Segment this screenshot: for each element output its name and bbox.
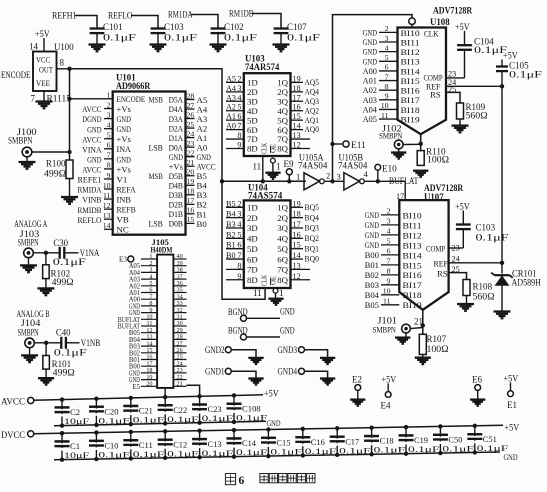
wire xyxy=(57,68,70,70)
svg-text:A0: A0 xyxy=(197,143,208,153)
capacitor C101 xyxy=(90,27,105,29)
J105 pin 9 xyxy=(141,312,157,314)
svg-text:E4: E4 xyxy=(381,401,391,411)
svg-text:0.1μF: 0.1μF xyxy=(54,347,87,357)
svg-text:15: 15 xyxy=(293,241,301,250)
svg-text:BI12: BI12 xyxy=(401,47,420,57)
U103 pin 3 xyxy=(226,91,244,93)
U101 pin 11 xyxy=(104,198,113,200)
capacitor C102 xyxy=(211,27,226,29)
resistor R102 xyxy=(43,265,50,279)
J105 pin 3 xyxy=(141,271,157,273)
svg-text:+5V: +5V xyxy=(382,375,397,385)
svg-text:3Q: 3Q xyxy=(277,223,288,233)
svg-text:GND4: GND4 xyxy=(278,367,298,377)
capacitor C18 xyxy=(371,428,373,455)
svg-text:D1B: D1B xyxy=(169,209,184,219)
svg-text:CLK: CLK xyxy=(262,143,269,154)
U104 pin 3 xyxy=(226,217,244,219)
svg-text:14: 14 xyxy=(29,42,39,52)
svg-text:REFLO: REFLO xyxy=(108,11,133,21)
junction xyxy=(44,251,48,255)
junction xyxy=(330,179,334,183)
svg-text:B02: B02 xyxy=(365,270,379,280)
svg-text:6: 6 xyxy=(237,112,241,121)
U101 pin 26 xyxy=(186,118,195,120)
ground xyxy=(37,287,54,289)
svg-text:2: 2 xyxy=(385,24,389,33)
svg-text:0.1μF: 0.1μF xyxy=(476,233,509,243)
svg-text:4: 4 xyxy=(387,227,391,236)
svg-text:10: 10 xyxy=(103,181,111,190)
svg-text:BQ0: BQ0 xyxy=(305,254,320,264)
svg-text:6: 6 xyxy=(107,141,111,150)
junction xyxy=(419,142,423,146)
svg-text:GND2: GND2 xyxy=(205,345,225,355)
svg-text:8: 8 xyxy=(237,261,241,270)
svg-text:R108: R108 xyxy=(473,282,493,292)
svg-text:+Vs: +Vs xyxy=(169,161,184,171)
J105 pin 11 xyxy=(141,325,157,327)
ground xyxy=(320,377,335,379)
svg-text:REFA: REFA xyxy=(117,184,137,194)
svg-text:E10: E10 xyxy=(382,164,397,174)
svg-text:15: 15 xyxy=(293,112,301,121)
U104 pin 6 xyxy=(226,248,244,250)
svg-text:BI19: BI19 xyxy=(403,300,423,310)
U103 pin 14 xyxy=(291,129,304,131)
J105 pin 13 xyxy=(141,338,157,340)
svg-text:DGND: DGND xyxy=(82,114,101,124)
resistor R107 xyxy=(419,334,426,354)
svg-text:BI10: BI10 xyxy=(401,28,421,38)
junction xyxy=(261,179,265,183)
resistor R110 xyxy=(417,151,424,166)
svg-text:0.1μF: 0.1μF xyxy=(164,33,197,43)
capacitor C19 xyxy=(405,427,407,454)
svg-text:VB: VB xyxy=(117,215,129,225)
svg-text:+5V: +5V xyxy=(504,374,519,384)
svg-text:U108: U108 xyxy=(430,17,450,27)
wire xyxy=(45,343,47,356)
ground xyxy=(405,333,407,337)
svg-text:GND: GND xyxy=(363,47,377,57)
svg-text:5: 5 xyxy=(237,230,241,239)
svg-text:C102: C102 xyxy=(224,22,244,32)
U104 pin 13 xyxy=(291,268,311,270)
svg-text:E6: E6 xyxy=(472,375,482,385)
U101 pin 22 xyxy=(186,156,195,158)
svg-text:8: 8 xyxy=(60,58,65,68)
svg-text:560Ω: 560Ω xyxy=(466,111,488,121)
junction xyxy=(500,261,504,265)
svg-text:74AR574: 74AR574 xyxy=(245,62,280,72)
svg-text:D1A: D1A xyxy=(169,133,184,143)
svg-text:0.1μF: 0.1μF xyxy=(167,414,199,424)
svg-text:B3: B3 xyxy=(226,220,236,229)
svg-text:19: 19 xyxy=(293,74,301,83)
svg-text:GND: GND xyxy=(363,27,377,37)
test point E11 xyxy=(333,143,343,145)
ground xyxy=(89,43,106,45)
capacitor C50 xyxy=(439,426,441,453)
svg-text:74AS574: 74AS574 xyxy=(248,191,283,201)
capacitor C103 xyxy=(151,27,166,29)
svg-text:16: 16 xyxy=(293,103,301,112)
U103 pin 5 xyxy=(226,110,244,112)
U101 pin 3 xyxy=(104,118,113,120)
junction xyxy=(44,341,48,345)
svg-text:28: 28 xyxy=(187,91,195,100)
svg-text:BI13: BI13 xyxy=(401,57,421,67)
svg-text:1Q: 1Q xyxy=(277,203,288,213)
svg-text:E11: E11 xyxy=(351,140,366,150)
ground xyxy=(248,377,263,379)
J105 pin 12 xyxy=(141,332,157,334)
svg-text:GND: GND xyxy=(117,154,131,164)
svg-text:B04: B04 xyxy=(365,290,380,300)
svg-text:3: 3 xyxy=(237,84,241,93)
svg-text:1: 1 xyxy=(107,90,111,99)
ground xyxy=(320,357,335,359)
capacitor C12 xyxy=(164,431,166,458)
wire U108 output xyxy=(420,134,422,166)
svg-text:SMBPN: SMBPN xyxy=(18,238,39,248)
svg-text:+5V: +5V xyxy=(35,29,50,39)
svg-text:B1: B1 xyxy=(226,241,236,250)
svg-text:0.1μF: 0.1μF xyxy=(202,448,234,458)
svg-text:16: 16 xyxy=(187,206,195,215)
J105 pin 37 xyxy=(173,278,186,280)
svg-text:18: 18 xyxy=(293,210,301,219)
U107 pin 3 xyxy=(381,224,399,226)
svg-text:R100: R100 xyxy=(46,159,66,169)
ground xyxy=(350,398,365,400)
svg-text:GND: GND xyxy=(363,37,377,47)
ground xyxy=(415,357,431,359)
J105 pin 2 xyxy=(141,265,157,267)
svg-text:5: 5 xyxy=(237,103,241,112)
svg-text:AVCC: AVCC xyxy=(82,165,101,175)
J105 pin 34 xyxy=(173,298,186,300)
svg-text:1: 1 xyxy=(279,288,284,298)
svg-text:GND: GND xyxy=(504,452,518,462)
svg-text:ANALOG A: ANALOG A xyxy=(14,219,47,229)
svg-text:B2: B2 xyxy=(226,230,236,239)
svg-text:RM1DB: RM1DB xyxy=(229,9,254,19)
svg-text:100Ω: 100Ω xyxy=(427,344,449,354)
svg-text:0.1μF: 0.1μF xyxy=(202,413,234,423)
J105 pin 25 xyxy=(173,359,186,361)
svg-text:GND: GND xyxy=(87,124,101,134)
svg-text:2: 2 xyxy=(107,100,111,109)
J105 pin 17 xyxy=(141,365,157,367)
svg-text:2: 2 xyxy=(387,207,391,216)
svg-text:21: 21 xyxy=(177,381,183,388)
svg-text:BI19: BI19 xyxy=(401,114,421,124)
svg-text:4: 4 xyxy=(237,220,241,229)
svg-text:AQ0: AQ0 xyxy=(305,124,320,134)
svg-text:560Ω: 560Ω xyxy=(473,292,495,302)
svg-text:0.1μF: 0.1μF xyxy=(305,446,337,456)
junction xyxy=(287,179,291,183)
svg-text:E9: E9 xyxy=(284,159,294,169)
svg-text:SMBPN: SMBPN xyxy=(379,131,403,141)
U103 pin 12 xyxy=(291,147,311,149)
svg-text:A05: A05 xyxy=(363,114,378,124)
svg-text:BQ1: BQ1 xyxy=(305,243,319,253)
svg-text:A00: A00 xyxy=(363,66,378,76)
J105 pin 36 xyxy=(173,285,186,287)
svg-text:V1: V1 xyxy=(117,174,128,184)
svg-text:BI16: BI16 xyxy=(401,86,421,96)
capacitor C107 xyxy=(274,27,289,29)
U101 pin 2 xyxy=(104,108,113,110)
U107 pin 6 xyxy=(381,254,399,256)
wire xyxy=(43,91,45,101)
svg-text:10: 10 xyxy=(381,101,389,110)
svg-text:A02: A02 xyxy=(363,85,377,95)
svg-text:E5: E5 xyxy=(132,384,140,391)
capacitor C20 xyxy=(95,399,97,425)
svg-text:J104: J104 xyxy=(21,318,41,328)
svg-text:B4: B4 xyxy=(197,181,208,191)
svg-text:A03: A03 xyxy=(363,95,378,105)
U103 pin 9 xyxy=(226,147,244,149)
U108 pin 10 xyxy=(379,108,398,110)
U104 pin 19 xyxy=(291,206,304,208)
capacitor C10 xyxy=(95,433,97,459)
svg-text:0.1μF: 0.1μF xyxy=(374,445,406,455)
svg-text:BI18: BI18 xyxy=(401,105,421,115)
wire encode to U101 pin1 xyxy=(70,98,113,100)
svg-text:8: 8 xyxy=(237,131,241,140)
svg-text:18: 18 xyxy=(293,84,301,93)
svg-text:+5V: +5V xyxy=(455,202,470,212)
svg-text:RMIDA: RMIDA xyxy=(78,185,103,195)
svg-text:0.1μF: 0.1μF xyxy=(98,415,130,425)
svg-text:B4: B4 xyxy=(226,210,236,219)
svg-text:1: 1 xyxy=(296,172,300,182)
svg-text:2: 2 xyxy=(237,74,241,83)
wire buflat xyxy=(364,180,405,182)
svg-text:0.1μF: 0.1μF xyxy=(236,447,268,457)
svg-text:4D: 4D xyxy=(247,234,258,244)
wire clock to U108 xyxy=(333,15,413,182)
wire xyxy=(324,180,344,182)
svg-text:18: 18 xyxy=(187,187,195,196)
svg-text:4: 4 xyxy=(107,120,111,129)
ground xyxy=(28,258,30,265)
J105 pin 23 xyxy=(173,372,186,374)
capacitor C23 xyxy=(199,396,201,422)
svg-text:BQ5: BQ5 xyxy=(305,202,320,212)
J105 pin 31 xyxy=(173,318,186,320)
svg-text:AVCC: AVCC xyxy=(1,397,25,407)
svg-text:D2B: D2B xyxy=(169,200,184,210)
capacitor C14 xyxy=(233,430,235,457)
svg-text:GND3: GND3 xyxy=(278,345,298,355)
junction xyxy=(376,179,380,183)
J105 pin 22 xyxy=(173,379,186,381)
U101 pin 8 xyxy=(104,168,113,170)
svg-text:11: 11 xyxy=(253,288,262,298)
capacitor C1 xyxy=(61,433,63,459)
svg-text:11: 11 xyxy=(103,191,111,200)
svg-text:20: 20 xyxy=(187,168,195,177)
svg-text:+5V: +5V xyxy=(264,389,279,399)
J105 pin 14 xyxy=(141,345,157,347)
svg-text:NC: NC xyxy=(117,225,129,235)
svg-text:VINB: VINB xyxy=(82,195,101,205)
svg-text:9: 9 xyxy=(385,92,389,101)
U107 pin 8 xyxy=(381,274,399,276)
svg-text:RS: RS xyxy=(437,269,448,279)
svg-text:0.1μF: 0.1μF xyxy=(408,444,440,454)
svg-text:0.1μF: 0.1μF xyxy=(98,450,130,460)
svg-text:E2: E2 xyxy=(352,375,362,385)
ground xyxy=(273,43,290,45)
svg-text:A1: A1 xyxy=(226,112,236,121)
U101 pin 24 xyxy=(186,137,195,139)
U104 pin 16 xyxy=(291,237,304,239)
U101 pin 16 xyxy=(186,213,195,215)
svg-text:C103: C103 xyxy=(164,22,184,32)
svg-text:REFLO: REFLO xyxy=(78,215,102,225)
svg-text:0.1μF: 0.1μF xyxy=(53,257,86,267)
ground xyxy=(268,298,283,300)
svg-text:AD589H: AD589H xyxy=(512,278,542,288)
svg-text:14: 14 xyxy=(293,122,301,131)
svg-text:C101: C101 xyxy=(103,22,123,32)
J105 pin 26 xyxy=(173,352,186,354)
U107 pin 10 xyxy=(381,294,399,296)
svg-text:OE: OE xyxy=(271,276,278,285)
svg-text:9: 9 xyxy=(107,171,111,180)
svg-text:E1: E1 xyxy=(507,400,517,410)
svg-text:6: 6 xyxy=(387,247,391,256)
svg-text:12: 12 xyxy=(293,140,301,149)
svg-text:5Q: 5Q xyxy=(277,244,288,254)
svg-text:7: 7 xyxy=(387,257,391,266)
U104 pin 14 xyxy=(291,258,304,260)
svg-text:AVCC: AVCC xyxy=(197,162,216,172)
svg-text:20: 20 xyxy=(146,381,152,388)
svg-text:A1: A1 xyxy=(197,133,208,143)
resistor R101 xyxy=(43,356,50,370)
J105 pin 10 xyxy=(141,318,157,320)
svg-text:+5V: +5V xyxy=(503,51,518,61)
svg-text:LSB: LSB xyxy=(149,142,164,152)
svg-text:B1: B1 xyxy=(197,209,207,219)
J105 pin 15 xyxy=(141,352,157,354)
U107 pin 11 xyxy=(381,304,399,306)
ground xyxy=(494,310,511,312)
U108 pin 3 xyxy=(379,41,398,43)
svg-text:4: 4 xyxy=(237,93,241,102)
svg-text:17: 17 xyxy=(187,196,195,205)
U101 pin 25 xyxy=(186,127,195,129)
svg-text:10: 10 xyxy=(383,287,391,296)
svg-text:C40: C40 xyxy=(56,328,71,338)
svg-text:BI14: BI14 xyxy=(401,66,421,76)
svg-text:ENCODE: ENCODE xyxy=(117,94,146,104)
svg-text:B03: B03 xyxy=(365,280,380,290)
svg-text:7D: 7D xyxy=(247,265,258,275)
svg-text:19: 19 xyxy=(293,199,301,208)
svg-text:A3: A3 xyxy=(197,114,208,124)
U101 pin 19 xyxy=(186,184,195,186)
U101 pin 7 xyxy=(104,158,113,160)
svg-text:VEE: VEE xyxy=(36,78,50,88)
U104 pin 8 xyxy=(226,268,244,270)
svg-text:5: 5 xyxy=(385,53,389,62)
wire xyxy=(69,179,71,197)
U107 pin 9 xyxy=(381,284,399,286)
svg-text:21: 21 xyxy=(187,158,195,167)
svg-text:12: 12 xyxy=(103,201,111,210)
svg-text:0.1μF: 0.1μF xyxy=(103,33,136,43)
U101 pin 18 xyxy=(186,194,195,196)
svg-text:6D: 6D xyxy=(247,254,258,264)
svg-text:GND: GND xyxy=(87,154,101,164)
svg-text:D0B: D0B xyxy=(169,219,184,229)
U104 pin 15 xyxy=(291,248,304,250)
U101 pin 17 xyxy=(186,203,195,205)
svg-text:9: 9 xyxy=(237,140,241,149)
J105 pin 1 xyxy=(141,258,157,260)
svg-text:+5V: +5V xyxy=(455,22,470,32)
capacitor C21 xyxy=(130,398,132,424)
J105 pin 8 xyxy=(141,305,157,307)
svg-text:GND: GND xyxy=(365,220,379,230)
svg-text:11: 11 xyxy=(253,162,262,172)
U101 pin 5 xyxy=(104,138,113,140)
wire encode to U104 clock xyxy=(222,181,265,299)
U107 pin 2 xyxy=(381,214,399,216)
svg-text:10μF: 10μF xyxy=(64,416,90,426)
svg-text:GND: GND xyxy=(117,124,131,134)
svg-text:0.1μF: 0.1μF xyxy=(133,449,165,459)
svg-text:DVCC: DVCC xyxy=(1,430,25,440)
svg-text:SMBPN: SMBPN xyxy=(8,136,33,146)
svg-text:INB: INB xyxy=(117,195,132,205)
svg-text:B5: B5 xyxy=(226,199,236,208)
svg-text:BUFLAT: BUFLAT xyxy=(389,176,419,186)
svg-text:C103: C103 xyxy=(476,223,496,233)
J105 pin 30 xyxy=(173,325,186,327)
node VINA xyxy=(64,252,78,254)
wire reference line xyxy=(501,86,503,273)
svg-text:BI16: BI16 xyxy=(403,270,423,280)
svg-text:5: 5 xyxy=(387,237,391,246)
capacitor C2 xyxy=(61,400,63,426)
svg-text:3: 3 xyxy=(385,34,389,43)
svg-text:A0: A0 xyxy=(226,122,236,131)
svg-text:6: 6 xyxy=(237,241,241,250)
wire xyxy=(75,16,97,29)
junction xyxy=(67,67,71,71)
J105 pin 16 xyxy=(141,359,157,361)
svg-text:RM1DA: RM1DA xyxy=(168,10,193,20)
svg-text:B00: B00 xyxy=(365,250,380,260)
svg-text:VCC: VCC xyxy=(36,55,50,65)
J105 pin 35 xyxy=(173,292,186,294)
svg-text:1D: 1D xyxy=(247,203,258,213)
ground xyxy=(26,156,28,161)
capacitor C15 xyxy=(267,430,269,457)
svg-text:D0A: D0A xyxy=(169,142,184,152)
